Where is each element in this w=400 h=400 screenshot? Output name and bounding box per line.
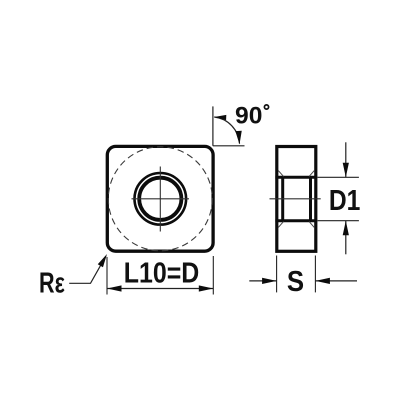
L10 dimension line: [107, 288, 213, 290]
side view hole wall left: [281, 177, 284, 220]
hole inner circle: [139, 178, 181, 220]
L10 arrow left: [107, 285, 122, 291]
D1 dimension line upper: [345, 142, 347, 177]
90-deg arc arrow upper: [214, 114, 226, 120]
centerline vertical (front view): [159, 167, 161, 232]
L10 dimension extension line left: [106, 257, 108, 295]
90-deg extension line horizontal: [213, 145, 245, 147]
D1 arrow upper: [343, 163, 349, 178]
side view chamfer top-left: [278, 171, 283, 177]
side view chamfer bottom-right: [309, 222, 314, 228]
L10 arrow right: [199, 285, 214, 291]
insert body side view rectangle: [277, 147, 316, 252]
S dimension extension line left: [276, 256, 278, 293]
D1 extension line upper: [318, 176, 359, 178]
D1 extension line lower: [318, 220, 359, 222]
side view upper edge line (bold): [275, 176, 317, 179]
S dimension line left: [249, 280, 276, 282]
90-deg angle arc: [214, 117, 239, 144]
svg-text:90: 90: [235, 102, 262, 129]
S arrow right: [315, 278, 330, 284]
corner radius leader line: [69, 256, 106, 283]
svg-text:S: S: [287, 266, 304, 298]
hole outer circle: [135, 173, 187, 225]
svg-text:Rε: Rε: [39, 268, 65, 300]
insert body front view (square with rounded corners): [107, 146, 213, 251]
S arrow left: [262, 278, 277, 284]
side view centerline: [270, 198, 321, 200]
90-deg extension line vertical: [212, 106, 214, 145]
side view chamfer top-right: [309, 171, 314, 177]
side view chamfer bottom-left: [278, 222, 283, 228]
inscribed circle (dashed): [108, 147, 212, 251]
90-deg arc arrow lower: [235, 131, 242, 145]
S dimension line right: [315, 280, 357, 282]
degree symbol: [264, 105, 268, 109]
D1 arrow lower: [343, 221, 349, 236]
svg-text:L10=D: L10=D: [124, 257, 200, 289]
corner radius leader arrow: [98, 253, 110, 268]
side view hole wall right: [309, 177, 312, 220]
centerline horizontal (front view): [132, 198, 190, 200]
side view lower edge line (bold): [275, 219, 317, 222]
D1 dimension line lower: [345, 221, 347, 255]
svg-text:D1: D1: [329, 185, 361, 217]
S dimension extension line right: [314, 256, 316, 293]
L10 dimension extension line right: [212, 256, 214, 295]
